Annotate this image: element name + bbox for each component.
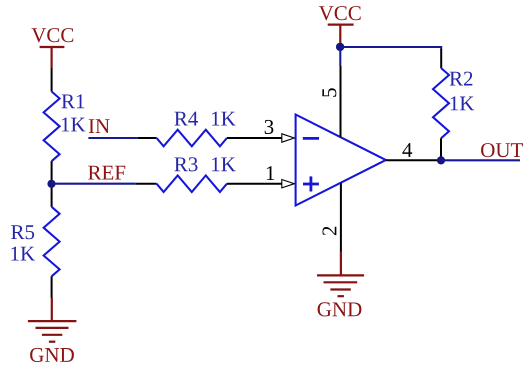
pin 4 output wire [386,159,441,161]
pin 3 input arrow [282,134,295,142]
wire R1 bottom lead to junction [51,161,53,207]
resistor R4 [157,130,227,147]
wire R5 bottom lead [51,276,53,298]
node junction OUT [437,156,445,164]
pin number 2 [322,227,336,235]
wire R3 to op-amp pin 1 [227,183,282,185]
wire pin 5 stub [339,47,341,66]
value 1K of R3 [212,157,236,171]
net label VCC left [31,28,73,42]
ground symbol right [317,252,364,297]
op-amp inverting input marker [303,137,319,140]
value 1K of R2 [451,96,475,110]
value 1K of R1 [62,118,86,132]
resistor R5 [44,207,60,276]
wire REF [52,183,136,185]
wire R2 bottom lead [440,138,442,160]
wire R4 to op-amp pin 3 [227,137,282,139]
net label GND right [318,302,362,316]
node junction REF [47,180,55,188]
pin 5 lead [340,66,342,137]
net label VCC right [319,6,361,20]
power symbol VCC left [40,47,65,68]
op-amp U1 body [296,115,386,206]
pin 2 lead [340,183,342,252]
net label GND left [30,348,74,362]
pin number 4 [402,143,412,157]
wire R1 top lead [51,68,53,92]
pin number 1 [267,166,274,180]
value 1K of R4 [212,112,236,126]
wire OUT [441,159,520,161]
label R4 [174,112,198,126]
net label OUT [481,143,523,157]
label R1 [62,94,85,108]
net label REF [88,166,125,180]
label R2 [450,72,473,86]
wire R2 top lead [440,49,442,68]
label R5 [11,225,34,239]
wire IN [88,137,137,139]
wire R4 left lead [138,137,157,139]
power symbol VCC right [328,25,354,47]
node junction VCC [336,43,344,51]
wire R3 left lead [136,183,157,185]
resistor R1 [44,92,60,162]
op-amp non-inverting input marker [303,176,319,191]
ground symbol left [28,298,77,342]
pin 1 input arrow [282,180,295,188]
resistor R3 [157,175,227,192]
wire VCC to R2 top [340,47,441,50]
label R3 [174,157,197,171]
net label IN [89,119,110,133]
pin number 3 [265,120,274,134]
pin number 5 [322,88,336,96]
value 1K of R5 [11,247,35,261]
resistor R2 [433,68,449,138]
